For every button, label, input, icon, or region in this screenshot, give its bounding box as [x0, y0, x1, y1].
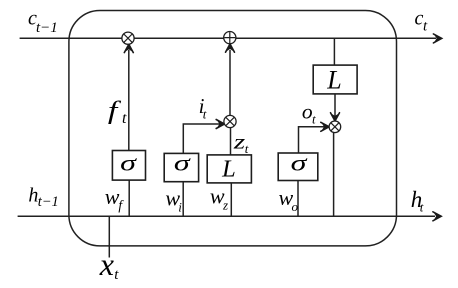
box: L1 (candidate activation): [207, 155, 251, 183]
svg-text:t: t: [423, 19, 428, 35]
svg-text:t: t: [245, 141, 249, 156]
wire: z down (multiply node 2 to L1 box): [230, 127, 232, 154]
symbol: X in multiply node 2: [226, 117, 234, 125]
svg-text:o: o: [292, 199, 299, 214]
arrowhead: c_t output (right): [433, 34, 441, 43]
svg-text:i: i: [178, 200, 182, 215]
svg-text:σ: σ: [120, 150, 137, 176]
wire: f gate vertical (sigma1 top to multiply node 1): [128, 50, 130, 151]
cell body (rounded rectangle): [69, 11, 397, 246]
svg-text:t−1: t−1: [36, 20, 58, 36]
arrowhead: f into multiply node 1 (up): [124, 44, 133, 52]
svg-text:L: L: [326, 65, 341, 94]
node: multiply 2 (input x candidate): [224, 115, 236, 127]
arrowhead: h_t output (right): [433, 212, 441, 221]
wire: L2 to multiply node 3 (vertical): [334, 94, 336, 116]
box: sigma2 (input gate): [164, 153, 198, 181]
arrowhead: o into multiply node 3 (right): [321, 122, 329, 131]
symbol: + in plus node: [224, 32, 235, 43]
wire: i gate (sigma2 top up then right to multiply node 2): [183, 124, 219, 153]
svg-text:t: t: [420, 199, 424, 214]
wire: c to L2 drop: [333, 38, 335, 65]
svg-text:f: f: [108, 97, 122, 124]
box: sigma1 (forget gate): [112, 151, 145, 181]
svg-text:x: x: [99, 246, 114, 282]
wire: w_f stub: [128, 180, 130, 216]
wire: x_t input vertical: [108, 216, 110, 257]
box: L2 (output activation): [313, 65, 357, 94]
arrowhead: L2 into multiply node 3 (down): [331, 113, 340, 121]
arrowhead: i into multiply node 2 (right): [216, 120, 224, 129]
box: sigma3 (output gate): [278, 153, 318, 181]
arrowhead: z into plus node (up): [226, 44, 235, 52]
wire: c line (top horizontal cell-state): [20, 37, 436, 39]
svg-text:t: t: [114, 267, 119, 283]
wire: w_z stub: [230, 183, 232, 216]
wire: w_o stub: [297, 181, 299, 217]
symbol: X in multiply node 1: [124, 34, 132, 42]
node: multiply 3 (output gate): [329, 121, 341, 133]
svg-text:z: z: [233, 129, 246, 153]
svg-text:t: t: [203, 107, 207, 122]
node: plus (add) on c line: [224, 31, 236, 43]
wire: output drop (multiply node 3 down to h line): [333, 132, 335, 216]
svg-text:t: t: [122, 110, 127, 127]
node: multiply 1 (forget) on c line: [122, 32, 134, 44]
svg-text:f: f: [118, 197, 124, 212]
wire: z up (multiply node 2 to plus node): [229, 50, 231, 116]
wire: o gate (sigma3 top up then right to multiply node 3): [299, 127, 325, 154]
svg-text:σ: σ: [174, 150, 191, 176]
symbol: X in multiply node 3: [331, 123, 339, 131]
wire: h line (bottom horizontal hidden-state): [18, 215, 435, 217]
svg-text:L: L: [221, 155, 236, 182]
svg-text:σ: σ: [291, 150, 308, 176]
svg-text:z: z: [222, 198, 228, 213]
svg-text:t−1: t−1: [38, 194, 59, 210]
wire: w_i stub: [182, 182, 184, 217]
svg-text:t: t: [312, 111, 316, 126]
